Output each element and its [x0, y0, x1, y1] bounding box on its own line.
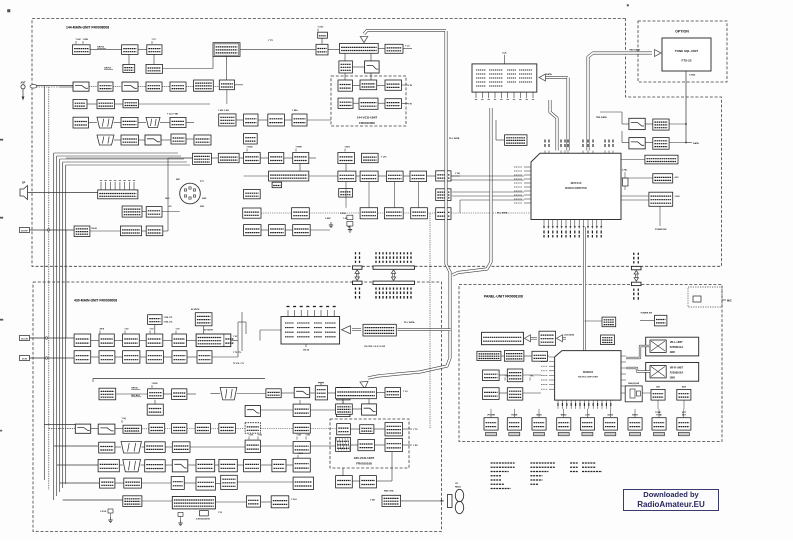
panel switch TONE: [652, 418, 666, 430]
panel CPU bottom pins: [557, 400, 559, 409]
430 TX pre drive: [172, 389, 187, 400]
VCO amp out 1: [385, 80, 402, 90]
svg-text:Y 5M: Y 5M: [258, 435, 263, 437]
svg-text:SP: SP: [22, 182, 26, 185]
144 2nd mixer: [219, 80, 234, 90]
wires CN05 to DC rows: [260, 329, 281, 331]
430 2nd mixer row4: [145, 442, 166, 453]
wire PLL to APC: [344, 53, 346, 61]
ref osc symbol group: [108, 509, 113, 513]
svg-text:Y 2LO Y BB: Y 2LO Y BB: [167, 114, 179, 116]
CN-04 interface connector box: [472, 64, 537, 92]
Downloaded by RadioAmateur.EU footer box: [623, 489, 719, 511]
signal label Y 9V: [175, 331, 177, 334]
arrow into 144 PLL: [360, 37, 368, 43]
144 RX front LPF: [73, 82, 89, 91]
svg-text:DC IN: DC IN: [22, 358, 28, 360]
row2 wires: [356, 175, 360, 177]
430 PLL ref wide box: [336, 388, 377, 399]
430 doubler below VCO: [360, 476, 377, 488]
svg-text:FR0010009: FR0010009: [359, 121, 375, 125]
144 455 LPF: [145, 135, 161, 145]
audio line: [211, 157, 218, 159]
430 mixer trap row4: [121, 441, 141, 453]
svg-text:Y 2LO: Y 2LO: [291, 499, 297, 501]
connector pin labels above: [355, 261, 357, 263]
svg-text:Y MOD: Y MOD: [340, 213, 347, 215]
430 reg 5V: [146, 334, 163, 347]
row3 dotted wire: [91, 428, 99, 430]
panel switch SET: [677, 418, 691, 430]
wire speaker to AF out: [28, 192, 73, 194]
430 RX amp right: [337, 387, 350, 400]
hollow double arrows between connector bars: [356, 273, 358, 279]
row U2 wires: [91, 356, 99, 358]
430 apc row6: [221, 475, 238, 489]
DIMMER box: [651, 389, 665, 400]
long horizontals upper mid: [240, 49, 316, 51]
430 loop LPF: [362, 404, 377, 415]
svg-text:TONE: TONE: [655, 412, 661, 414]
430-VCO-UNIT dashed box: [330, 419, 409, 468]
mixer trapezoid row E: [97, 135, 114, 145]
TX power module wide box: [269, 171, 309, 181]
LED driver row3: [507, 388, 523, 400]
left bus horizontal stubs upper: [43, 85, 45, 87]
144 area wire from row B to TX driver row: [226, 90, 228, 104]
AF mute switch: [218, 153, 239, 162]
wire tone unit down to junction: [685, 71, 687, 143]
svg-text:TONE SQL-UNIT: TONE SQL-UNIT: [675, 49, 698, 53]
wire IF counter: [496, 139, 505, 141]
row D wires: [89, 122, 98, 124]
VR-L-UNIT box: [646, 337, 699, 356]
APC detector row right: [338, 153, 355, 164]
key matrix row1 left boxes: [477, 351, 501, 360]
VCO buffer 1: [360, 80, 377, 90]
svg-text:CN-08: CN-08: [91, 228, 98, 230]
hollow wire bus to shift register: [398, 328, 451, 331]
144 limiter amp: [122, 45, 138, 55]
tone row1 wires: [645, 123, 653, 125]
430 VCO RX hatched box: [336, 437, 351, 451]
430 reg 8V: [123, 334, 140, 347]
wires below VCO: [342, 468, 344, 476]
svg-text:Y TX: Y TX: [413, 429, 418, 431]
144-VCO-UNIT dashed box: [331, 76, 406, 126]
hollow arrow shift register to CN-05: [352, 328, 361, 331]
144 IF amp: [170, 82, 186, 91]
svg-text:Y LMI: Y LMI: [76, 39, 81, 41]
TBS DATA bus to tone unit: [588, 53, 652, 151]
svg-text:430-VCO-UNIT: 430-VCO-UNIT: [354, 456, 375, 460]
wire buffer to VCO box: [307, 119, 331, 121]
144 det amp: [73, 100, 87, 109]
svg-text:PLL DATA: PLL DATA: [404, 321, 415, 324]
svg-text:DATA: DATA: [608, 413, 614, 416]
wires row2 down to meter chain: [345, 182, 347, 208]
signal label Y 2M: [248, 437, 250, 440]
BEEP box: [677, 389, 691, 400]
430 sql row5: [98, 459, 119, 471]
svg-text:CLK: CLK: [502, 53, 507, 55]
144 det out box: [244, 134, 258, 145]
430 driver row2 left: [147, 404, 163, 415]
144 APC det: [339, 61, 353, 73]
144 AF mute: [73, 117, 89, 128]
row3 wires: [499, 392, 507, 394]
vertical long wire x268 TX chain: [267, 120, 269, 158]
signal label Y 5M: [257, 437, 259, 440]
svg-text:PLL DATA: PLL DATA: [449, 137, 460, 140]
wire TX driver row down: [250, 153, 252, 164]
svg-text:EXT SP: EXT SP: [21, 230, 28, 232]
bus wires down from audio section: [167, 164, 169, 226]
144 CPU microprocessor box: [531, 153, 621, 219]
thermal sensor small box: [272, 182, 282, 188]
RX S-meter dotted chain: [243, 208, 261, 218]
svg-text:CN CNTL V 4.5 Z LOW: CN CNTL V 4.5 Z LOW: [364, 345, 385, 348]
signal label Y MOD: [151, 385, 153, 388]
CPU left pins: [524, 166, 531, 168]
DC 13.8V input jack: [20, 336, 30, 341]
svg-text:Y MOD: Y MOD: [152, 383, 159, 385]
svg-text:DIAL(M)-SW: DIAL(M)-SW: [628, 382, 639, 385]
wire modulator: [128, 54, 130, 64]
svg-text:4.5V: 4.5V: [675, 176, 680, 179]
row wires: [261, 229, 269, 231]
430 FM det row5: [219, 459, 237, 471]
crystal filter block MF1001: [213, 43, 240, 57]
wire TX wide box to APC det: [309, 175, 338, 177]
144 mic amp Q1009: [73, 45, 91, 55]
430 APC det below: [336, 404, 353, 414]
430 att row6 mid: [171, 477, 184, 490]
svg-text:Y LO: Y LO: [403, 391, 408, 393]
left vertical bus wires: [43, 86, 45, 480]
144 ceramic filter 2: [121, 135, 139, 145]
svg-text:V IN: V IN: [408, 85, 412, 87]
board connector long bar pair: [373, 266, 415, 269]
row5 wires: [119, 464, 123, 466]
SWR det box: [339, 189, 353, 198]
svg-text:TBS DATA: TBS DATA: [596, 116, 607, 119]
signal label Y 2M: [296, 437, 298, 440]
PANEL-UNIT board outline dashed: [459, 285, 722, 442]
mic amp Q1016: [122, 206, 142, 217]
tone det amp row1: [653, 119, 669, 130]
svg-text:Y LTX: Y LTX: [381, 157, 387, 159]
row R1 wires: [116, 393, 148, 395]
svg-text:Y 2LO: Y 2LO: [298, 453, 304, 455]
svg-text:Y 2M: Y 2M: [297, 435, 302, 437]
svg-text:BZR: BZR: [682, 387, 687, 389]
wire 430 row1 to row2 verticals: [299, 400, 301, 404]
wire TX unit to fan: [401, 500, 444, 502]
row U1 wires: [48, 340, 74, 342]
POWER SW box: [655, 315, 667, 326]
DC-DC converter wide box: [196, 334, 231, 347]
430 xtal box left of PLL: [123, 496, 142, 507]
wire row A: [90, 49, 122, 51]
svg-text:DATA: DATA: [546, 73, 552, 76]
beep filter: [146, 226, 163, 236]
wire PLL to xtal: [376, 392, 385, 394]
430 VCO TX box: [337, 424, 351, 435]
430 PLL IC wide box bottom: [172, 497, 215, 509]
svg-text:PANEL-UNIT FR0008108: PANEL-UNIT FR0008108: [484, 295, 523, 299]
AF connector pins: [100, 182, 102, 190]
ground symbols mid: [330, 222, 332, 225]
144 TX predriver: [316, 44, 328, 55]
TX module wires: [244, 175, 269, 177]
wires beep row: [90, 230, 121, 232]
bus turns into 430 rows: [44, 424, 75, 426]
430 flt amp above: [148, 315, 162, 325]
144 10.7M amp: [268, 114, 285, 126]
PLL to VCO wires: [344, 73, 346, 80]
long wire from 144 audio to bus: [66, 157, 193, 159]
row B wires: [89, 86, 98, 88]
wires above boxes: [154, 324, 156, 334]
row R2 wires: [154, 400, 156, 404]
mixer trapezoid 2: [146, 117, 160, 127]
DC IN jack 2: [20, 356, 30, 361]
svg-text:MICROCOMPUTER: MICROCOMPUTER: [578, 377, 598, 379]
frequency legend text block: [491, 462, 515, 464]
430 shift reg right row6: [293, 477, 314, 489]
144 mod circuit: [146, 64, 163, 73]
svg-text:Y 4CLK: Y 4CLK: [100, 510, 107, 513]
PA unit box bottom right: [382, 495, 401, 506]
svg-text:Y 5M: Y 5M: [306, 435, 311, 437]
svg-text:FR0010108: FR0010108: [356, 462, 372, 466]
signal label Y MOD: [246, 149, 248, 152]
antenna switch box: [244, 189, 261, 198]
svg-text:Y SQ: Y SQ: [122, 418, 127, 420]
430 VCO out amp: [385, 423, 403, 436]
svg-text:Y TR: Y TR: [505, 376, 510, 378]
svg-text:Y MOD: Y MOD: [247, 147, 254, 149]
svg-text:TX VOL CTL: TX VOL CTL: [233, 363, 245, 365]
430 AF amp row5: [244, 459, 261, 471]
panel switch LOW: [580, 418, 594, 430]
svg-text:GND: GND: [670, 351, 676, 354]
430 interface connector box CN-05: [281, 317, 340, 345]
CPU bottom pins with arrows: [543, 220, 545, 228]
CN-05 top pins with labels: [287, 310, 289, 317]
VCO amp out 2: [385, 99, 402, 109]
svg-text:MAIN: MAIN: [536, 413, 542, 416]
power box wires: [621, 195, 649, 197]
svg-text:Y TX: Y TX: [268, 40, 273, 42]
svg-text:AF M: AF M: [100, 328, 105, 331]
CN-04 bottom pins: [475, 92, 477, 98]
second IF chain row: [219, 114, 236, 126]
power switching box: [649, 192, 673, 206]
TONE SQL UNIT FTS-22 box: [662, 38, 711, 71]
430 mic amp row6: [196, 477, 215, 490]
430 buffer row5: [272, 459, 286, 471]
panel switch DATA: [603, 418, 617, 430]
vertical feed wires right of U rows: [237, 341, 239, 358]
430 VCO mod sw: [358, 440, 375, 451]
svg-text:Y MIN: Y MIN: [83, 39, 89, 41]
svg-text:Y 455C: Y 455C: [325, 217, 332, 220]
wires top right row: [328, 49, 340, 51]
DIAL rotary encoder: [625, 386, 642, 402]
signal label Y PWR: [295, 149, 297, 152]
144 RX RF amp: [98, 82, 113, 91]
row1 wires: [501, 355, 505, 357]
hollow bus 144CPU to panel CPU: [583, 227, 586, 351]
svg-text:Y 6M: Y 6M: [370, 500, 375, 502]
430 3rd amp row5: [196, 459, 215, 471]
panel switch HOME: [507, 418, 521, 430]
VCO inner: 144 VCO RX: [338, 98, 353, 108]
svg-text:DC13.8V: DC13.8V: [21, 338, 29, 340]
svg-text:MIC: MIC: [727, 299, 732, 303]
VCO wires: [353, 85, 361, 87]
svg-text:DATA: DATA: [693, 142, 699, 145]
svg-text:430-MAIN-UNIT FR0009008: 430-MAIN-UNIT FR0009008: [74, 299, 117, 303]
430 noise amp row6: [100, 478, 115, 488]
430 sql amp row4: [99, 442, 115, 453]
xtal resonator: [623, 178, 629, 186]
panel mic dotted sub-box: [688, 287, 722, 307]
mixer trapezoid 1: [97, 117, 114, 128]
svg-text:T-GND: T-GND: [689, 75, 696, 77]
430 TX buffer: [148, 389, 164, 399]
row E wires: [114, 139, 121, 141]
144 PLL buffer wide box: [340, 43, 379, 53]
panel reset box: [601, 335, 615, 345]
144 RX BPF: [122, 82, 138, 91]
signal label Y OSC: [317, 29, 319, 32]
svg-text:TONE: TONE: [656, 414, 662, 416]
430 rx input filter: [74, 334, 91, 347]
signal label Y MIN: [82, 41, 84, 44]
svg-text:144-MAIN-UNIT FR0008008: 144-MAIN-UNIT FR0008008: [66, 26, 109, 30]
vertical wires bus to 430 upper rows: [65, 230, 67, 338]
backup battery box: [645, 155, 678, 164]
svg-text:Y 2M: Y 2M: [455, 173, 460, 175]
svg-text:VFO/MR: VFO/MR: [487, 414, 495, 416]
TX driver: [293, 153, 309, 164]
VCO wires 430: [350, 428, 359, 430]
svg-text:FAN CNTL: FAN CNTL: [384, 490, 395, 493]
430 TX LPF: [294, 387, 310, 397]
tone row2 wires: [645, 142, 653, 144]
svg-text:13.8V: 13.8V: [675, 196, 681, 198]
AF power amp: [193, 153, 212, 164]
svg-text:HOME: HOME: [511, 414, 518, 416]
signal label Y TR: [504, 378, 506, 381]
430 rx crystal osc above: [195, 313, 212, 326]
backup wire: [621, 159, 645, 161]
144-MAIN-UNIT board outline dashed: [32, 19, 722, 267]
board connector small bar pair left: [353, 266, 363, 269]
scan specks at page edges: [8, 10, 11, 13]
IF counter box above CPU: [505, 135, 527, 146]
DIAL wires: [621, 392, 625, 394]
430 buffer below VCO: [336, 476, 353, 488]
430 switching reg: [99, 334, 114, 347]
signal label Y 2LO: [297, 455, 299, 458]
tone det switch row1: [629, 118, 645, 129]
EXT SP jack: [20, 228, 30, 233]
430 mod xtal box: [99, 388, 116, 400]
430 VCO buffer: [360, 425, 374, 434]
signal label AF M: [99, 331, 101, 334]
beep protect box: [74, 226, 90, 237]
430 VCO out amp2: [385, 439, 403, 452]
wire CN1: [585, 320, 603, 322]
144 2nd LO amp: [170, 117, 186, 127]
panel switch MAIN: [532, 418, 546, 430]
OPTION dashed box: [638, 21, 727, 82]
wires PLL down: [342, 399, 344, 404]
144 SSB unit: [244, 114, 258, 126]
wire antenna to RX front end: [36, 85, 73, 87]
wire to 2nd mixer: [235, 84, 244, 86]
electret mic sub symbols: [347, 215, 353, 220]
svg-text:CN-05: CN-05: [303, 350, 310, 352]
row6 wires: [115, 482, 124, 484]
panel CPU left pins: [549, 356, 555, 358]
svg-text:VR-R-UNIT: VR-R-UNIT: [670, 366, 684, 370]
VCO mod/switch: [359, 98, 378, 109]
svg-text:FTS-22: FTS-22: [681, 59, 691, 63]
reset wire: [621, 177, 653, 179]
wire APC row vertical: [345, 164, 347, 172]
wires RIT boxes to CPU left: [451, 175, 524, 177]
430 RX rf amp row2: [293, 404, 310, 417]
wire xtal to PLL: [142, 500, 172, 502]
panel CPU box: [555, 351, 621, 401]
PLL DATA bus vertical: [378, 31, 450, 376]
430 sq det row6: [124, 478, 142, 488]
row second IF wires: [236, 119, 244, 121]
svg-text:X-TAL: X-TAL: [622, 169, 628, 172]
signal label Y TX: [151, 41, 153, 44]
backlight LED box row3: [483, 388, 500, 400]
tone det switch row2: [629, 138, 645, 149]
mic sw box: [146, 207, 162, 218]
430 455 LPF row5: [172, 460, 188, 472]
svg-text:PLL DATA: PLL DATA: [497, 212, 508, 215]
signal label Y APC: [344, 149, 346, 152]
hollow arrow LCD driver to LCD: [530, 337, 537, 339]
144 squelch ctl: [97, 100, 115, 109]
430 ant switch: [266, 389, 281, 398]
144 3rd amp: [171, 134, 186, 144]
svg-text:Y TX: Y TX: [152, 39, 157, 41]
144 buffer amp right: [385, 44, 403, 53]
right board connector bar pair: [632, 266, 642, 269]
144 TX AF amp: [147, 45, 162, 55]
signal label Y 5V: [149, 331, 151, 334]
svg-text:F2558102A: F2558102A: [670, 371, 684, 375]
svg-text:Y MIL CTL: Y MIL CTL: [164, 317, 174, 319]
svg-text:M38203: M38203: [583, 370, 594, 374]
430 mixer right row2: [337, 404, 350, 417]
svg-text:ANT: ANT: [21, 81, 26, 84]
signal label Y PL: [529, 378, 531, 381]
430 xtal 2nd LO row5: [293, 458, 310, 472]
tone det amp row2: [653, 138, 669, 150]
panel CN1 board box top: [602, 317, 616, 327]
